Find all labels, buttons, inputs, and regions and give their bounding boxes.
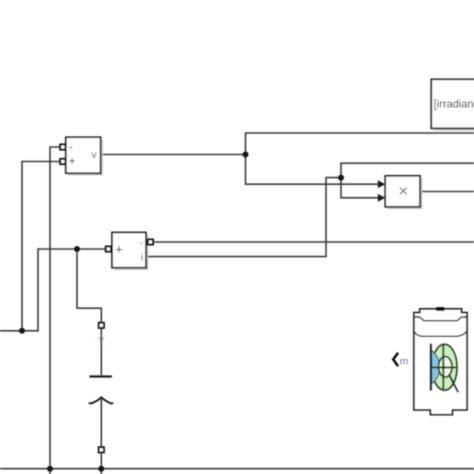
wire: lower connection port to bottom bus and edge bbox=[100, 452, 102, 474]
battery B1 logo: inner oval bbox=[439, 357, 452, 378]
svg-text:-: - bbox=[140, 238, 143, 248]
wire: left edge stub up to current-meas plus port bbox=[0, 249, 106, 331]
wire: voltage-meas v output to junction bbox=[101, 154, 246, 156]
arrowhead: product block top input bbox=[378, 180, 386, 188]
battery B1 logo: diagonal tail bbox=[450, 376, 459, 393]
wire: current-meas i output right then up to junction bbox=[146, 178, 341, 257]
product block X bbox=[385, 176, 422, 209]
battery cell symbol: top plate bbox=[89, 375, 112, 377]
svg-text:×: × bbox=[398, 182, 408, 201]
svg-text:m: m bbox=[400, 355, 409, 367]
node: v output junction bbox=[243, 152, 249, 158]
unconnected-line red arrow bbox=[98, 335, 104, 340]
svg-text:v: v bbox=[92, 149, 98, 161]
svg-text:-: - bbox=[69, 140, 73, 154]
wire: voltage-meas plus port left rail down (x=22) bbox=[22, 162, 60, 331]
svg-text:+: + bbox=[69, 156, 76, 168]
battery B1 logo: equator line bbox=[431, 366, 457, 368]
svg-text:+: + bbox=[115, 242, 123, 257]
svg-text:[irradiance]: [irradiance] bbox=[434, 99, 474, 111]
current measurement block CM bbox=[112, 232, 148, 270]
node: bottom bus junction right bbox=[98, 466, 104, 472]
wire: bottom bus rail across full width bbox=[0, 468, 474, 470]
wire: i signal branch down then right into product bottom input bbox=[341, 178, 378, 198]
voltage measurement block VM bbox=[66, 137, 103, 175]
battery B1 logo: blue crescent bbox=[431, 350, 440, 384]
port: current measurement minus terminal bbox=[148, 239, 153, 244]
battery B1: cap seam line bbox=[414, 317, 467, 321]
wire: battery-cell bottom to lower connection port bbox=[100, 398, 102, 448]
node: i signal junction bbox=[338, 175, 344, 181]
wire: product output to right edge bbox=[420, 191, 474, 193]
wire: branch from node down to battery-cell positive port bbox=[77, 249, 101, 323]
port: voltage measurement minus terminal bbox=[60, 144, 65, 149]
port: voltage measurement plus terminal bbox=[60, 159, 65, 164]
battery B1 logo: green globe bbox=[432, 344, 457, 390]
wire: current-meas minus pass-through to right edge bbox=[153, 241, 474, 243]
wire: voltage-meas minus port left then down to bottom bus (x=50 rail) bbox=[50, 147, 60, 474]
battery B1: cylindrical cell body bbox=[414, 309, 467, 415]
port: current measurement plus terminal bbox=[106, 246, 111, 251]
wire: connection port down to battery-cell top plate bbox=[100, 328, 102, 375]
From tag [irradiance] bbox=[431, 79, 474, 130]
battery B1 logo: center dot bbox=[442, 366, 445, 369]
battery B1 logo: meridian line bbox=[442, 345, 444, 390]
svg-text:i: i bbox=[141, 253, 143, 264]
node: positive rail junction bbox=[74, 246, 80, 252]
port: battery branch lower connection bbox=[99, 447, 104, 452]
battery cell symbol: curved plate bbox=[89, 397, 113, 403]
battery B1: shoulder seam line bbox=[414, 331, 467, 336]
node: bottom bus junction left bbox=[47, 466, 53, 472]
arrowhead: product block bottom input bbox=[378, 194, 386, 202]
port: battery m output chevron bbox=[393, 353, 398, 366]
battery B1: top terminal nub bbox=[436, 307, 444, 311]
wire: v signal branch up then right to edge under irradiance tag bbox=[246, 133, 474, 155]
wire: i signal branch up then right to edge bbox=[341, 163, 474, 177]
node: left rail junction bbox=[19, 328, 25, 334]
battery B1 logo: left bar bbox=[430, 344, 432, 391]
wire: v signal branch down then right into product top input bbox=[246, 155, 379, 185]
port: battery branch upper connection bbox=[99, 323, 104, 328]
